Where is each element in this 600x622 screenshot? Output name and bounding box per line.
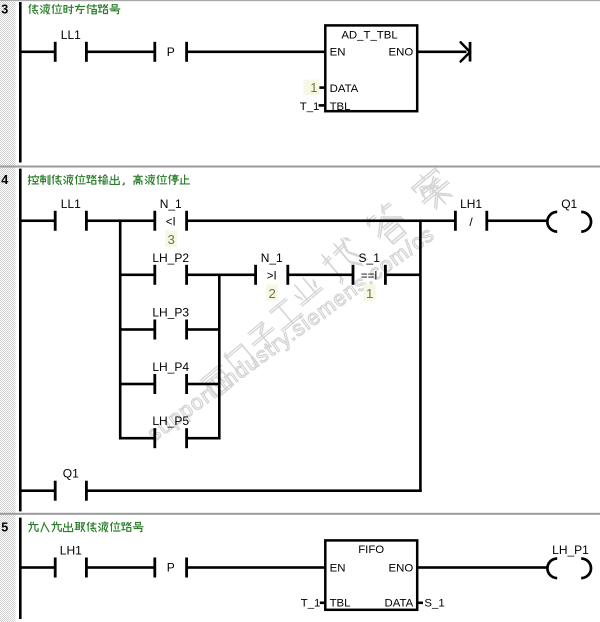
svg-text:ENO: ENO bbox=[389, 47, 414, 59]
svg-text:ENO: ENO bbox=[389, 563, 414, 575]
contact LH_P3 bbox=[153, 320, 156, 340]
wire S_1 to node B bbox=[386, 274, 420, 277]
svg-text:LH1: LH1 bbox=[460, 197, 482, 211]
compare value 1 bbox=[364, 284, 376, 301]
box AD_T_TBL bbox=[325, 25, 417, 111]
contact N_1 greater-than compare bbox=[254, 265, 257, 285]
wire node A to LH_P4 bbox=[120, 383, 154, 386]
wire N_1 out to node B bbox=[187, 219, 420, 222]
svg-text:T_1: T_1 bbox=[301, 598, 321, 610]
wire ENO to coil LH_P1 bbox=[416, 566, 548, 569]
wire Q1 contact to node B bbox=[87, 489, 422, 492]
wire P to AD_T_TBL EN bbox=[187, 51, 326, 54]
left gutter dithered margin bbox=[0, 1, 16, 622]
network 3 title: di ye wei shi cun chu lu hao (green) bbox=[29, 4, 120, 14]
coil Q1 bbox=[547, 212, 557, 232]
svg-text:==I: ==I bbox=[361, 270, 378, 282]
wire LH1 to P bbox=[87, 566, 155, 569]
svg-text:EN: EN bbox=[330, 47, 346, 59]
wire rail to Q1 contact bbox=[19, 489, 55, 492]
watermark: diagonal grey "xi men zi gong ye" outline characters bbox=[200, 278, 323, 398]
contact LL1 bbox=[54, 211, 57, 231]
svg-text:TBL: TBL bbox=[330, 598, 351, 610]
contact LH1 NC bbox=[454, 211, 457, 231]
svg-text:LH_P3: LH_P3 bbox=[152, 306, 189, 320]
contact Q1 feedback bbox=[54, 481, 57, 501]
wire node C to N_1 greater-than bbox=[219, 274, 255, 277]
svg-text:DATA: DATA bbox=[385, 598, 414, 610]
compare value 2 bbox=[266, 284, 278, 301]
wire LH_P3 to node C bbox=[187, 328, 219, 331]
svg-text:LL1: LL1 bbox=[61, 28, 81, 42]
wire to S_1 compare bbox=[288, 274, 352, 277]
svg-text:LH1: LH1 bbox=[60, 544, 82, 558]
branch vertical node A bbox=[119, 219, 122, 439]
svg-text:T_1: T_1 bbox=[300, 101, 320, 113]
box FIFO bbox=[325, 540, 417, 609]
svg-text:LH_P1: LH_P1 bbox=[552, 543, 589, 557]
network 5 title: xian ru xian chu qu di ye wei lu hao (green) bbox=[29, 522, 144, 532]
svg-text:3: 3 bbox=[1, 2, 8, 16]
left power rail network 5 bbox=[19, 518, 22, 619]
svg-text:FIFO: FIFO bbox=[358, 544, 384, 556]
contact P positive edge bbox=[153, 558, 156, 578]
wire node A to LH_P2 bbox=[120, 274, 154, 277]
svg-text:>I: >I bbox=[267, 270, 277, 282]
left power rail network 3 bbox=[19, 2, 22, 163]
wire LH1 to coil Q1 bbox=[487, 219, 548, 222]
svg-text:2: 2 bbox=[269, 286, 276, 301]
wire LH_P5 to node C bbox=[187, 437, 219, 440]
svg-text:LH_P2: LH_P2 bbox=[152, 251, 189, 265]
tick DATA input bbox=[319, 86, 326, 89]
wire LH_P4 to node C bbox=[187, 383, 219, 386]
svg-text:TBL: TBL bbox=[330, 101, 351, 113]
svg-text:S_1: S_1 bbox=[359, 251, 381, 265]
wire LL1 to N_1 compare, through branch node A bbox=[87, 219, 155, 222]
svg-text:<I: <I bbox=[166, 216, 176, 228]
svg-text:P: P bbox=[167, 561, 175, 575]
tick DATA output bbox=[417, 602, 423, 605]
contact N_1 less-than compare bbox=[153, 211, 156, 231]
wire node B to LH1 bbox=[420, 219, 455, 222]
svg-text:P: P bbox=[167, 45, 175, 59]
wire rail to LL1 bbox=[19, 219, 55, 222]
wire ENO output bbox=[416, 51, 466, 54]
svg-text:Q1: Q1 bbox=[561, 197, 577, 211]
svg-text:N_1: N_1 bbox=[160, 197, 182, 211]
contact LH1 bbox=[54, 558, 57, 578]
branch vertical node B bbox=[419, 219, 422, 492]
svg-text:LH_P4: LH_P4 bbox=[152, 360, 189, 374]
contact LH_P4 bbox=[153, 374, 156, 394]
tick TBL input bbox=[319, 104, 326, 107]
wire LL1 to P contact bbox=[87, 51, 155, 54]
contact LH_P2 bbox=[153, 265, 156, 285]
wire P to FIFO EN bbox=[187, 566, 326, 569]
operand value 1 on DATA bbox=[304, 80, 320, 96]
svg-text:AD_T_TBL: AD_T_TBL bbox=[341, 30, 397, 42]
svg-text:/: / bbox=[469, 215, 473, 229]
open branch arrow bbox=[469, 42, 472, 62]
contact LL1 bbox=[54, 42, 57, 62]
wire node A to LH_P5 bbox=[120, 437, 154, 440]
svg-text:EN: EN bbox=[330, 563, 346, 575]
svg-text:LH_P5: LH_P5 bbox=[152, 414, 189, 428]
contact LH_P5 bbox=[153, 428, 156, 448]
network 4 title: kong zhi di ye wei lu shu chu , gao ye wei ting zhi (green) bbox=[28, 175, 189, 185]
tick TBL input bbox=[320, 602, 326, 605]
compare value 3 bbox=[165, 230, 177, 247]
svg-text:4: 4 bbox=[1, 173, 8, 187]
svg-text:5: 5 bbox=[1, 521, 8, 535]
wire LH_P2 to node C bbox=[187, 274, 219, 277]
contact P positive edge bbox=[153, 42, 156, 62]
svg-text:1: 1 bbox=[366, 286, 373, 301]
wire rail to LL1 bbox=[19, 51, 55, 54]
svg-text:LL1: LL1 bbox=[61, 197, 81, 211]
svg-text:Q1: Q1 bbox=[63, 467, 79, 481]
watermark: diagonal grey "zhao da an" outline characters bbox=[322, 168, 453, 284]
top border hairline bbox=[0, 0, 600, 1]
wire rail to LH1 bbox=[19, 566, 55, 569]
left power rail network 4 bbox=[19, 169, 22, 512]
svg-text:N_1: N_1 bbox=[261, 251, 283, 265]
wire node A to LH_P3 bbox=[120, 328, 154, 331]
branch vertical node C bbox=[218, 274, 221, 440]
contact S_1 equal compare bbox=[352, 265, 355, 285]
svg-text:1: 1 bbox=[310, 81, 317, 95]
coil LH_P1 bbox=[547, 559, 557, 579]
svg-text:DATA: DATA bbox=[330, 83, 359, 95]
network separator line bbox=[0, 166, 600, 168]
network separator line bbox=[0, 513, 600, 515]
svg-text:3: 3 bbox=[168, 232, 175, 247]
svg-text:S_1: S_1 bbox=[424, 598, 444, 610]
